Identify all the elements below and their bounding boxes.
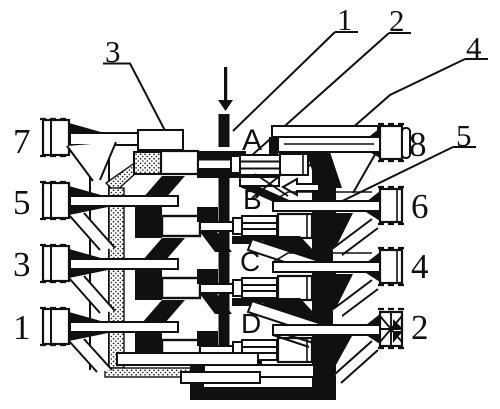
wall block left of port 8 pipe: [269, 137, 278, 154]
chimney white funnel to port 6 gallery: [320, 151, 377, 193]
row C rod: [200, 284, 233, 293]
svg-text:8: 8: [409, 125, 427, 164]
port 2 pipe: [273, 325, 380, 335]
central supply channel vertical bar: [219, 114, 230, 368]
port 1 flange: [40, 308, 69, 345]
drain duct port 4 to pipe 2 junction: [332, 280, 378, 326]
port 7 pipe: [70, 133, 138, 145]
svg-text:3: 3: [13, 245, 31, 284]
port 7 flange: [40, 119, 69, 156]
port 5 pipe: [70, 196, 178, 206]
port 4 flange: [378, 248, 404, 285]
svg-text:5: 5: [13, 183, 31, 222]
row B drain slab from row A: [135, 176, 185, 207]
row C black socket: [197, 269, 218, 284]
port 2 black wedge funnel: [366, 314, 380, 344]
row D left black chamber: [135, 331, 162, 362]
row B black socket: [197, 207, 218, 222]
row D small box: [233, 342, 242, 358]
row A stippled chamber: [134, 152, 161, 174]
row B right plain box: [278, 214, 312, 238]
row A small box right of bar: [231, 156, 240, 173]
bottom nested pipe 2: [181, 372, 260, 383]
svg-text:B: B: [243, 184, 262, 215]
port 1 black wedge funnel: [69, 312, 108, 341]
row B rod: [200, 222, 233, 231]
row A black cross arm upper: [197, 151, 246, 161]
row D striped spool box: [242, 340, 277, 360]
port 4 black wedge funnel: [366, 252, 380, 282]
right return frame vertical: [322, 167, 336, 400]
svg-text:7: 7: [13, 122, 31, 161]
port 6 pipe: [273, 201, 380, 211]
port 2 flange with plug: [378, 309, 404, 348]
callout label 4: [302, 30, 488, 172]
svg-text:1: 1: [13, 308, 31, 347]
port 3 pipe: [70, 259, 178, 269]
row A piston box: [161, 151, 198, 174]
row C black band under spool: [232, 298, 262, 306]
svg-text:A: A: [242, 124, 262, 157]
row B striped spool box: [242, 216, 277, 236]
flow arrow section B: [283, 179, 319, 195]
row C black diagonal lower: [200, 294, 232, 314]
bottom stippled return gallery: [105, 368, 195, 377]
row A black cross arm lower: [197, 168, 246, 178]
row D right plain box: [278, 338, 312, 362]
row C right black diagonal: [258, 298, 326, 326]
port 3 black wedge funnel: [69, 249, 108, 278]
row C left black chamber: [135, 269, 162, 300]
stipple neck from chamber to gallery: [106, 162, 136, 192]
row B black diagonal lower: [200, 232, 232, 252]
row B black band under spool: [232, 236, 262, 244]
row D rod: [200, 346, 233, 355]
port 4 pipe 3d edge: [273, 253, 372, 262]
port 1 duct to gallery: [69, 339, 112, 372]
right drain black triangle under port 6: [336, 213, 353, 247]
row C piston: [162, 278, 200, 298]
svg-text:4: 4: [411, 247, 429, 286]
bottom pipe 3: [117, 353, 258, 365]
row D black diagonal lower: [200, 356, 232, 376]
row A rod slot: [199, 161, 230, 169]
row C duct to port 2: [248, 301, 322, 335]
port 1 pipe: [70, 322, 178, 332]
row D drain slab from row C: [135, 300, 185, 331]
row C striped spool box: [242, 278, 277, 298]
drain duct port 2 to bottom corner: [335, 341, 378, 383]
port 5 black wedge funnel: [69, 186, 108, 215]
bottom return frame: [190, 387, 336, 400]
right drain black triangle under port 2: [336, 336, 352, 365]
row A right plain box: [280, 154, 308, 175]
row B piston: [162, 216, 200, 236]
callout label 3: [103, 34, 184, 167]
port 3 flange: [40, 245, 69, 282]
port 6 black wedge funnel: [366, 191, 380, 221]
row D piston: [162, 340, 200, 360]
port 6 flange: [378, 187, 404, 224]
row B duct to port 4: [248, 239, 322, 273]
row C drain slab from row B: [135, 238, 185, 269]
port 3 duct to gallery: [69, 276, 115, 313]
crossing duct edges above section B: [252, 174, 288, 198]
row A lower white band: [240, 177, 279, 186]
callout label 2: [250, 3, 411, 157]
right shadow band between boxes and frame: [312, 170, 322, 396]
row A striped spool box: [240, 155, 280, 175]
left vertical gallery wall lines: [90, 157, 109, 370]
row A upper duct box: [138, 130, 183, 150]
port 7 funnel duct to gallery: [67, 142, 116, 181]
row A chimney black wedge: [306, 152, 342, 188]
row B left black chamber: [135, 207, 162, 238]
row B small box: [233, 218, 242, 234]
port 6 pipe 3d edge: [273, 192, 372, 201]
right drain black triangle under port 4: [336, 274, 353, 308]
svg-text:6: 6: [411, 187, 429, 226]
port 5 flange: [40, 182, 69, 219]
row C right plain box: [278, 276, 312, 300]
callout label 5: [330, 118, 476, 207]
inlet arrow: [218, 67, 233, 111]
left stippled return gallery: [109, 188, 124, 368]
row D black band under spool: [232, 360, 262, 368]
bottom-left frame stub: [190, 344, 204, 396]
callout label 1: [233, 2, 358, 131]
port 7 black wedge funnel: [69, 123, 108, 152]
port 8 flange: [378, 124, 410, 161]
duct below port 2 pipe: [273, 333, 317, 347]
port 8 pipe: [278, 137, 380, 152]
upper gallery duct to port 8: [272, 126, 378, 137]
row D black socket: [197, 331, 218, 346]
row B right black diagonal: [258, 236, 326, 264]
port 4 pipe: [273, 262, 380, 272]
port 5 duct to gallery: [69, 213, 115, 250]
bottom nested pipe 1: [204, 365, 314, 377]
port 8 black wedge funnel: [366, 128, 380, 158]
row A right black diagonal: [240, 187, 298, 204]
row C small box: [233, 280, 242, 296]
svg-text:2: 2: [411, 308, 429, 347]
drain duct port 6 to pipe 4 junction: [332, 219, 378, 263]
